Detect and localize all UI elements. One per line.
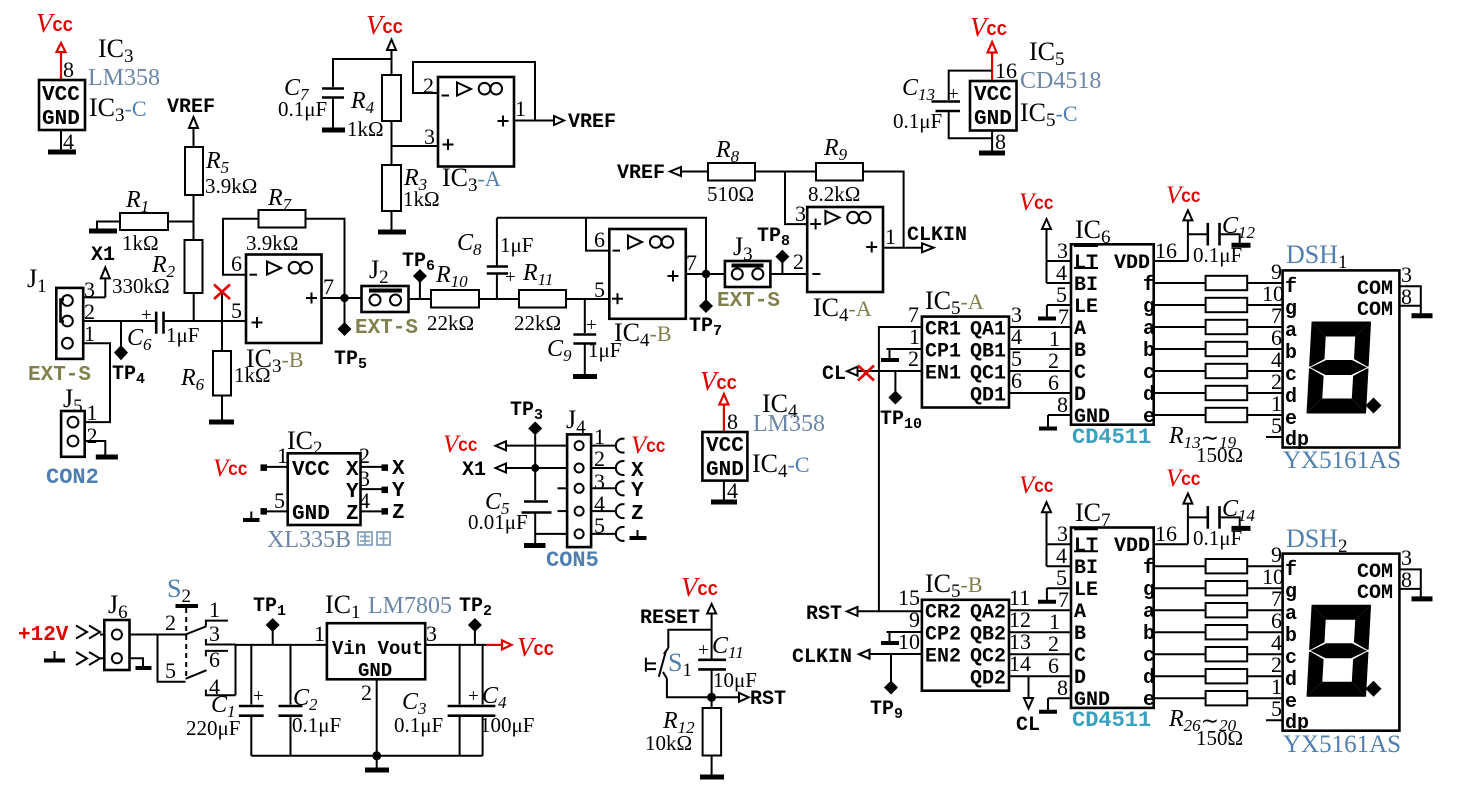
svg-text:b: b: [1285, 625, 1297, 648]
svg-text:2: 2: [165, 610, 176, 635]
ground (supply): [365, 756, 389, 770]
resistor R13~19 row 1: [1154, 276, 1283, 290]
feedback wire R9 to output: [863, 172, 904, 248]
svg-text:LT: LT: [1074, 252, 1098, 275]
wire QD2 branch to CL: [1028, 676, 1030, 698]
svg-text:f: f: [1143, 274, 1155, 297]
svg-text:LE: LE: [1074, 296, 1098, 319]
svg-text:0.1μF: 0.1μF: [292, 713, 341, 737]
seven-segment digit 8. (DSH1): [1307, 322, 1382, 414]
svg-text:5: 5: [231, 298, 242, 323]
svg-text:Y: Y: [346, 481, 359, 504]
pin 2 (IC2 X): [359, 443, 405, 481]
svg-text:QB2: QB2: [970, 624, 1006, 647]
svg-text:g: g: [1143, 579, 1155, 602]
svg-text:8: 8: [995, 129, 1006, 154]
resistor R9: [808, 135, 863, 206]
svg-text:CD4511: CD4511: [1072, 708, 1151, 733]
wire IC5_A QA1 to decoder: [1009, 326, 1071, 328]
svg-text:EN2: EN2: [925, 646, 961, 669]
ground (R12): [700, 775, 724, 780]
svg-text:GND: GND: [706, 459, 744, 482]
svg-text:e: e: [1285, 408, 1297, 431]
capacitor C6: [127, 305, 199, 354]
svg-text:COM: COM: [1357, 561, 1393, 584]
svg-text:VCC: VCC: [974, 84, 1012, 107]
pin2 stub + port X: [591, 460, 644, 483]
svg-text:b: b: [1285, 342, 1297, 365]
ground (IC4_C): [711, 500, 737, 505]
connector J6: [104, 590, 129, 670]
resistor R26~20 row 4: [1154, 625, 1283, 639]
wire IC5_B QC2 to decoder: [1009, 653, 1071, 655]
svg-text:5: 5: [274, 488, 285, 513]
svg-text:RESET: RESET: [640, 607, 700, 630]
svg-text:VDD: VDD: [1114, 535, 1150, 558]
svg-text:1: 1: [314, 621, 325, 646]
svg-text:5: 5: [1271, 696, 1282, 721]
svg-text:e: e: [1285, 691, 1297, 714]
svg-text:0.1μF: 0.1μF: [278, 97, 327, 121]
capacitor C1: [186, 645, 264, 756]
svg-text:B: B: [1074, 623, 1086, 646]
svg-text:GND: GND: [358, 660, 392, 682]
decoder box IC6: [1071, 244, 1155, 429]
resistor R13~19 row 2: [1154, 298, 1283, 312]
ground port (12V return): [44, 651, 104, 665]
svg-text:6: 6: [1011, 368, 1022, 393]
svg-text:5: 5: [1271, 413, 1282, 438]
pin4 stub + port Z: [591, 503, 644, 526]
port CL (down arrow): [1016, 698, 1040, 737]
capacitor C7: [278, 75, 344, 128]
capacitor C5: [468, 468, 552, 543]
svg-text:2: 2: [793, 249, 804, 274]
svg-text:f: f: [1285, 276, 1297, 299]
resistor R26~20 row 7: [1154, 691, 1283, 705]
svg-text:16: 16: [995, 58, 1017, 83]
counter IC5_B: [922, 600, 1009, 691]
power flag VCC (IC6 VDD): [1166, 182, 1201, 261]
svg-text:2: 2: [87, 423, 98, 448]
svg-text:Z: Z: [346, 503, 359, 526]
resistor R1: [120, 187, 168, 255]
port VCC (J4 left): [443, 431, 567, 458]
svg-text:X: X: [392, 458, 405, 481]
svg-text:VREF: VREF: [568, 111, 616, 134]
pin6 drop IC4_B: [586, 218, 609, 251]
node X1 arrow: [91, 244, 115, 297]
svg-text:XL335B: XL335B: [267, 527, 351, 553]
resistor R12: [645, 697, 721, 775]
svg-text:+: +: [948, 84, 959, 105]
wire R5 to junction: [193, 195, 195, 240]
op-amp IC4_A: [793, 201, 896, 326]
svg-text:CL: CL: [822, 363, 846, 386]
wire IC1 pin2 to ground rail: [361, 679, 377, 756]
tie low LE pin: [1038, 588, 1071, 602]
svg-text:2: 2: [361, 680, 372, 705]
svg-text:7: 7: [686, 250, 697, 275]
capacitor C14: [1188, 496, 1256, 550]
power flag VCC (IC7 LT/BI): [1019, 472, 1054, 566]
svg-text:D: D: [1074, 384, 1086, 407]
pin 4 wire + label: [61, 129, 74, 154]
tie low CP2: [881, 632, 922, 643]
capacitor C2: [279, 645, 342, 756]
capacitor C12: [1188, 213, 1256, 267]
svg-text:VCC: VCC: [706, 435, 744, 458]
wire pin16 VDD: [1154, 260, 1188, 262]
svg-text:CLKIN: CLKIN: [792, 646, 852, 669]
capacitor C9: [547, 299, 621, 374]
power flag VCC (reset): [681, 572, 718, 659]
wire pin16 VDD: [1154, 543, 1188, 545]
svg-text:Vin Vout: Vin Vout: [332, 638, 423, 660]
svg-text:EN1: EN1: [925, 363, 961, 386]
test point TP9: [870, 654, 903, 723]
svg-text:g: g: [1285, 298, 1297, 321]
ground (IC5_C): [979, 151, 1005, 156]
port X1 (J4 left): [462, 459, 567, 482]
svg-text:EXT-S: EXT-S: [28, 364, 91, 387]
jumper J3: [725, 232, 771, 287]
capacitor C4: [468, 645, 534, 756]
svg-text:LT: LT: [1074, 535, 1098, 558]
svg-text:A: A: [1074, 318, 1086, 341]
wire J3 to IC4_A pin2: [770, 273, 807, 275]
svg-text:VREF: VREF: [167, 96, 215, 119]
op-amp IC3_A: [423, 73, 526, 196]
ground (J5): [96, 455, 118, 460]
svg-text:330kΩ: 330kΩ: [112, 274, 170, 298]
svg-text:16: 16: [1155, 521, 1177, 546]
output rail IC1 pin3: [425, 644, 486, 646]
svg-text:QC2: QC2: [970, 646, 1006, 669]
tie low CP1: [881, 349, 922, 360]
wire IC5_B QB2 to decoder: [1009, 631, 1071, 633]
svg-text:LE: LE: [1074, 579, 1098, 602]
svg-text:GND: GND: [42, 108, 80, 131]
COM pins 3/8 to ground: [1399, 545, 1432, 599]
pin 3 (IC2 Y): [359, 466, 405, 503]
svg-text:8: 8: [63, 57, 74, 82]
resistor R26~20 row 5: [1154, 647, 1283, 661]
svg-text:RST: RST: [806, 603, 842, 626]
svg-text:f: f: [1143, 557, 1155, 580]
resistor R7: [246, 185, 306, 255]
pin 4 (IC2 Z): [359, 488, 405, 525]
wire IC5_A QB1 to decoder: [1009, 348, 1071, 350]
svg-text:B: B: [1074, 340, 1086, 363]
svg-text:EXT-S: EXT-S: [355, 317, 418, 340]
port VCC (supply out): [486, 632, 554, 662]
svg-text:VREF: VREF: [617, 162, 665, 185]
svg-text:4: 4: [359, 488, 370, 513]
svg-text:1: 1: [277, 443, 288, 468]
svg-text:X1: X1: [462, 459, 486, 482]
svg-text:1: 1: [87, 400, 98, 425]
junction dot (RST node): [707, 693, 716, 702]
wire R1 left + ground: [89, 222, 120, 232]
svg-text:1: 1: [209, 597, 220, 622]
resistor R10: [427, 262, 479, 335]
test point TP10: [880, 371, 922, 433]
tie low LE pin: [1038, 305, 1071, 319]
svg-text:CR2: CR2: [925, 602, 961, 625]
pin 5 dp stub: [1266, 696, 1283, 721]
svg-text:QC1: QC1: [970, 363, 1006, 386]
wire IC3_B output: [322, 297, 362, 299]
svg-text:CLKIN: CLKIN: [907, 224, 967, 247]
module box IC2: [288, 453, 361, 526]
wire pin3 LT: [1047, 260, 1072, 262]
wire J6 pin1 to S2: [130, 634, 186, 636]
svg-text:a: a: [1143, 601, 1155, 624]
svg-text:c: c: [1285, 364, 1297, 387]
resistor R26~20 row 2: [1154, 581, 1283, 595]
resistor R11: [514, 260, 566, 335]
wire IC5_B QA2 to decoder: [1009, 609, 1071, 611]
connector J5: [61, 384, 97, 457]
wire pin4 BI: [1047, 565, 1072, 567]
resistor R5: [185, 147, 257, 198]
svg-text:0.1μF: 0.1μF: [394, 713, 443, 737]
wire RESET loop top: [668, 630, 711, 648]
resistor R26~20 row 6: [1154, 669, 1283, 683]
port RST (out): [712, 688, 786, 711]
svg-text:d: d: [1143, 667, 1155, 690]
svg-text:3: 3: [426, 621, 437, 646]
wire IC5_B QD2 to decoder: [1009, 675, 1071, 677]
svg-text:14: 14: [1009, 651, 1031, 676]
port VREF (right): [617, 162, 708, 185]
regulator IC1: [314, 621, 437, 682]
svg-text:EXT-S: EXT-S: [717, 290, 780, 313]
svg-text:CON2: CON2: [46, 465, 99, 490]
svg-text:6: 6: [594, 227, 605, 252]
wire J2 to R10: [409, 298, 432, 300]
svg-text:0.1μF: 0.1μF: [893, 109, 942, 133]
svg-text:100μF: 100μF: [480, 713, 534, 737]
feedback rail IC4_B: [497, 218, 706, 274]
wire pin4 BI: [1047, 282, 1072, 284]
wire IC4_A output: [883, 247, 921, 249]
svg-text:a: a: [1143, 318, 1155, 341]
resistor R3: [382, 146, 440, 230]
resistor R26~20 row 1: [1154, 559, 1283, 573]
resistor R13~19 row 5: [1154, 364, 1283, 378]
label XL335B module: [267, 527, 390, 553]
svg-text:CL: CL: [1016, 714, 1040, 737]
resistor R2: [112, 240, 203, 298]
wire pin3 LT: [1047, 543, 1072, 545]
test point TP5: [334, 298, 367, 373]
svg-text:1: 1: [885, 224, 896, 249]
svg-text:+: +: [468, 686, 479, 707]
power flag VCC (IC6 LT/BI): [1019, 189, 1054, 283]
svg-text:220μF: 220μF: [186, 716, 240, 740]
svg-text:1μF: 1μF: [166, 323, 199, 347]
display box DSH2: [1283, 554, 1400, 735]
svg-text:A: A: [1074, 601, 1086, 624]
svg-text:2: 2: [423, 73, 434, 98]
svg-text:YX5161AS: YX5161AS: [1283, 731, 1401, 758]
wire CR1 to RST net: [879, 327, 922, 611]
ground (C7): [322, 128, 345, 133]
svg-text:QB1: QB1: [970, 341, 1006, 364]
svg-text:3.9kΩ: 3.9kΩ: [205, 174, 257, 198]
resistor R8: [707, 137, 755, 206]
port CLKIN (in): [792, 646, 922, 669]
tie GND pin 8: [1039, 698, 1071, 712]
power flag VCC (IC4): [700, 366, 737, 432]
ground (R3): [378, 230, 406, 235]
svg-text:CR1: CR1: [925, 319, 961, 342]
capacitor C13: [893, 71, 992, 139]
svg-text:CP1: CP1: [925, 341, 961, 364]
op-amp power box IC3_C: [39, 80, 85, 131]
test point TP7: [689, 274, 722, 340]
capacitor C3: [394, 645, 472, 756]
svg-text:8: 8: [1057, 392, 1068, 417]
wire R7 right to output: [306, 219, 345, 298]
ground (C12): [1232, 243, 1251, 248]
svg-text:+: +: [253, 686, 264, 707]
svg-text:a: a: [1285, 320, 1297, 343]
jumper J2: [362, 255, 409, 312]
test point TP3: [510, 399, 543, 468]
wire C6 to IC3_B pin5 junction: [164, 320, 247, 322]
resistor R13~19 row 7: [1154, 408, 1283, 422]
resistor R4: [347, 75, 401, 141]
test point TP2: [459, 595, 492, 645]
op-amp power box IC4_C: [702, 432, 747, 482]
node VREF (top left): [167, 96, 215, 147]
pin 5 (IC2 GND): [243, 488, 288, 520]
capacitor C11: [698, 633, 757, 697]
pin 4 wire + label (IC4_C): [724, 478, 738, 503]
svg-text:1: 1: [515, 96, 526, 121]
svg-text:LM358: LM358: [753, 411, 825, 437]
switch S2: [165, 574, 236, 699]
wire IC4_B output: [686, 273, 725, 275]
port VREF (out): [554, 111, 616, 134]
svg-text:8: 8: [727, 409, 738, 434]
svg-text:Z: Z: [392, 502, 405, 525]
svg-text:VCC: VCC: [42, 84, 80, 107]
pin 1 (IC2 VCC): [213, 443, 288, 482]
wire J5 pin2 to ground: [85, 441, 106, 455]
tie GND pin 8: [1039, 415, 1071, 429]
op-amp power box IC5_C: [970, 81, 1017, 131]
svg-text:CD4511: CD4511: [1072, 425, 1151, 450]
pin1 stub + port VCC (J4 right): [591, 432, 666, 459]
svg-text:BI: BI: [1074, 274, 1098, 297]
wire IC5_A QC1 to decoder: [1009, 370, 1071, 372]
wire pin3 stub IC3_A: [392, 145, 439, 147]
svg-text:CD4518: CD4518: [1020, 68, 1101, 94]
svg-text:X1: X1: [91, 244, 115, 267]
svg-text:g: g: [1143, 296, 1155, 319]
svg-text:3: 3: [795, 201, 806, 226]
label IC1 / LM7805: [325, 590, 452, 623]
wire R1 right to junction: [168, 221, 194, 223]
connector J1: [27, 264, 95, 359]
power flag VCC (IC5): [970, 12, 1007, 81]
wire IC5_A QD1 to decoder: [1009, 392, 1071, 394]
svg-text:LM7805: LM7805: [368, 593, 452, 619]
svg-text:Y: Y: [631, 480, 644, 503]
svg-text:VCC: VCC: [292, 459, 330, 482]
resistor R6: [180, 321, 271, 420]
svg-text:b: b: [1143, 340, 1155, 363]
wire J1 pin3 to X1: [83, 296, 105, 298]
test point TP8: [757, 225, 790, 274]
power flag VCC (top middle): [366, 10, 403, 75]
counter IC5_A: [922, 317, 1009, 408]
resistor R13~19 row 3: [1154, 320, 1283, 334]
svg-text:3: 3: [424, 124, 435, 149]
no-ERC stub with red X: [214, 285, 230, 322]
junction dot (IC4_B out): [702, 270, 710, 278]
svg-text:GND: GND: [974, 108, 1012, 131]
svg-text:d: d: [1143, 384, 1155, 407]
svg-text:Z: Z: [631, 503, 644, 526]
svg-text:C: C: [1074, 645, 1086, 668]
op-amp IC3_B: [231, 251, 334, 377]
power flag VCC (IC3): [36, 8, 73, 80]
test point TP1: [253, 595, 286, 645]
wire J6 pin2 to ground: [130, 658, 152, 668]
port CLKIN (out): [907, 224, 967, 252]
wire C5 to J4 pin5: [535, 533, 567, 535]
svg-text:c: c: [1143, 362, 1155, 385]
junction dot (IC3_B out): [340, 294, 348, 302]
connector J4: [558, 405, 606, 547]
svg-text:+: +: [505, 267, 516, 288]
svg-text:150Ω: 150Ω: [1196, 443, 1243, 467]
seven-segment digit 8. (DSH2): [1307, 605, 1382, 697]
pin5 stub + ground port: [591, 527, 646, 541]
svg-text:3.9kΩ: 3.9kΩ: [246, 231, 298, 255]
svg-text:4: 4: [727, 478, 738, 503]
wire R7 left to pin6: [223, 219, 259, 275]
svg-text:22kΩ: 22kΩ: [514, 311, 561, 335]
svg-text:22kΩ: 22kΩ: [427, 311, 474, 335]
svg-text:QD2: QD2: [970, 668, 1006, 691]
svg-text:LM358: LM358: [88, 65, 160, 91]
main rail to IC1: [236, 644, 327, 646]
svg-text:f: f: [1285, 559, 1297, 582]
port CL (in) with no-ERC X: [822, 363, 922, 386]
svg-text:a: a: [1285, 603, 1297, 626]
pin3 stub + port Y: [591, 480, 644, 503]
svg-text:7: 7: [323, 274, 334, 299]
svg-text:+12V: +12V: [18, 624, 69, 647]
wire J1 pin2 to C6: [83, 320, 155, 322]
svg-text:510Ω: 510Ω: [707, 182, 754, 206]
wire junction down to pin3: [785, 172, 807, 225]
decoder box IC7: [1071, 528, 1155, 713]
COM pins 3/8 to ground: [1399, 262, 1432, 316]
svg-text:0.01μF: 0.01μF: [468, 510, 528, 534]
svg-text:5: 5: [594, 277, 605, 302]
ground (IC3_C): [48, 150, 76, 155]
bottom ground rail: [251, 755, 482, 757]
svg-text:+: +: [141, 305, 152, 326]
svg-text:Y: Y: [392, 480, 405, 503]
